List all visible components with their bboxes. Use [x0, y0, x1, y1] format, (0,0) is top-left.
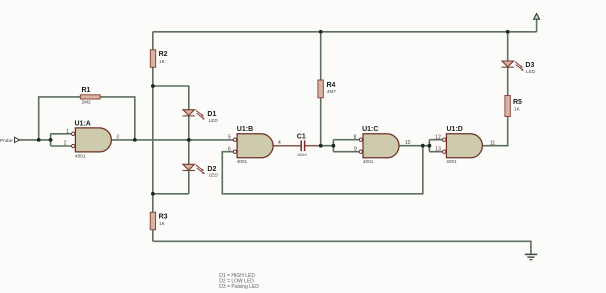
svg-text:Probe: Probe — [0, 138, 13, 143]
svg-text:100nf: 100nf — [297, 153, 307, 157]
svg-text:10: 10 — [405, 140, 411, 146]
wire U1:A input bracket — [51, 134, 72, 146]
wire U1:C input bracket — [333, 140, 359, 152]
resistor R5 — [505, 96, 522, 117]
probe terminal — [0, 137, 20, 143]
svg-text:U1:A: U1:A — [75, 120, 91, 127]
svg-text:1K: 1K — [159, 221, 166, 226]
svg-text:3: 3 — [116, 134, 119, 140]
svg-text:D3 = Pulsing LED: D3 = Pulsing LED — [219, 284, 259, 290]
op-amp U1:A (4001 gate) — [64, 120, 120, 158]
wire U1:B output pin to C1 — [273, 145, 300, 147]
svg-text:LED: LED — [526, 69, 536, 74]
wire D1 branch — [153, 86, 189, 140]
wire U1:A output to U1:B — [111, 139, 233, 141]
svg-text:4001: 4001 — [446, 159, 457, 164]
node D1/D2 junction — [187, 138, 191, 142]
svg-text:13: 13 — [435, 147, 441, 153]
op-amp U1:B (4001 gate) — [228, 126, 281, 164]
svg-text:4M7: 4M7 — [327, 89, 337, 94]
node R2/D1 junction — [151, 84, 155, 88]
wire R2/R3 left column — [152, 32, 154, 242]
op-amp U1:C (4001 gate) — [354, 126, 411, 164]
LED D2 — [183, 164, 219, 177]
node probe/R1 junction — [37, 138, 41, 142]
node R1 right junction — [133, 138, 137, 142]
svg-text:1: 1 — [66, 129, 69, 135]
svg-text:1K: 1K — [514, 107, 521, 112]
node U1:D input split — [428, 144, 432, 148]
node feedback branch junction — [421, 144, 425, 148]
LED D3 — [502, 61, 536, 74]
resistor R2 — [150, 50, 167, 68]
svg-text:C1: C1 — [297, 134, 306, 141]
svg-text:R5: R5 — [513, 99, 522, 106]
svg-text:R4: R4 — [327, 82, 336, 89]
wire U1:D input bracket — [429, 140, 442, 152]
wire U1:C output — [399, 145, 429, 147]
capacitor C1 — [297, 134, 308, 157]
svg-text:4001: 4001 — [75, 153, 86, 158]
svg-text:2M2: 2M2 — [82, 100, 92, 105]
wire top power rail — [153, 31, 537, 33]
resistor R3 — [150, 212, 167, 230]
svg-text:U1:D: U1:D — [447, 126, 463, 133]
wire probe input — [20, 139, 51, 141]
node U1:A input split — [49, 138, 53, 142]
svg-text:9: 9 — [354, 147, 357, 153]
node U1:C input split — [332, 144, 336, 148]
wire R1 feedback left — [39, 97, 80, 140]
wire R4 column — [320, 32, 322, 146]
LED D1 — [183, 110, 219, 123]
power VCC symbol — [534, 14, 540, 32]
svg-text:4001: 4001 — [363, 159, 374, 164]
op-amp U1:D (4001 gate) — [435, 126, 495, 164]
wire U1:D output / D3 column — [482, 32, 507, 146]
svg-text:LED: LED — [209, 118, 219, 123]
svg-text:11: 11 — [490, 140, 495, 146]
svg-text:U1:C: U1:C — [362, 126, 378, 133]
resistor R1 — [80, 87, 100, 104]
svg-text:R3: R3 — [159, 214, 168, 221]
wire bottom ground run — [153, 241, 531, 254]
note legend text — [219, 273, 259, 290]
svg-text:R2: R2 — [159, 51, 168, 58]
ground — [525, 254, 537, 259]
wire U1:B pin6 feedback — [222, 146, 422, 194]
node rail/D3 junction — [506, 30, 510, 34]
svg-text:5: 5 — [228, 135, 231, 141]
wire C1 to node — [305, 145, 333, 147]
node D2/R3 junction — [151, 192, 155, 196]
svg-text:12: 12 — [435, 135, 441, 141]
svg-text:LED: LED — [209, 173, 219, 178]
node rail/R4 junction — [319, 30, 323, 34]
svg-text:2: 2 — [64, 140, 67, 146]
wire D2 branch — [153, 140, 189, 194]
wire R1 feedback right — [100, 97, 135, 140]
svg-text:6: 6 — [228, 147, 231, 153]
svg-text:8: 8 — [354, 135, 357, 141]
svg-text:4: 4 — [278, 140, 281, 146]
svg-text:R1: R1 — [82, 87, 91, 94]
svg-text:4001: 4001 — [237, 159, 248, 164]
resistor R4 — [318, 80, 336, 98]
svg-text:U1:B: U1:B — [237, 126, 253, 133]
node C1/R4/U1:C junction — [319, 144, 323, 148]
svg-text:1K: 1K — [159, 59, 166, 64]
